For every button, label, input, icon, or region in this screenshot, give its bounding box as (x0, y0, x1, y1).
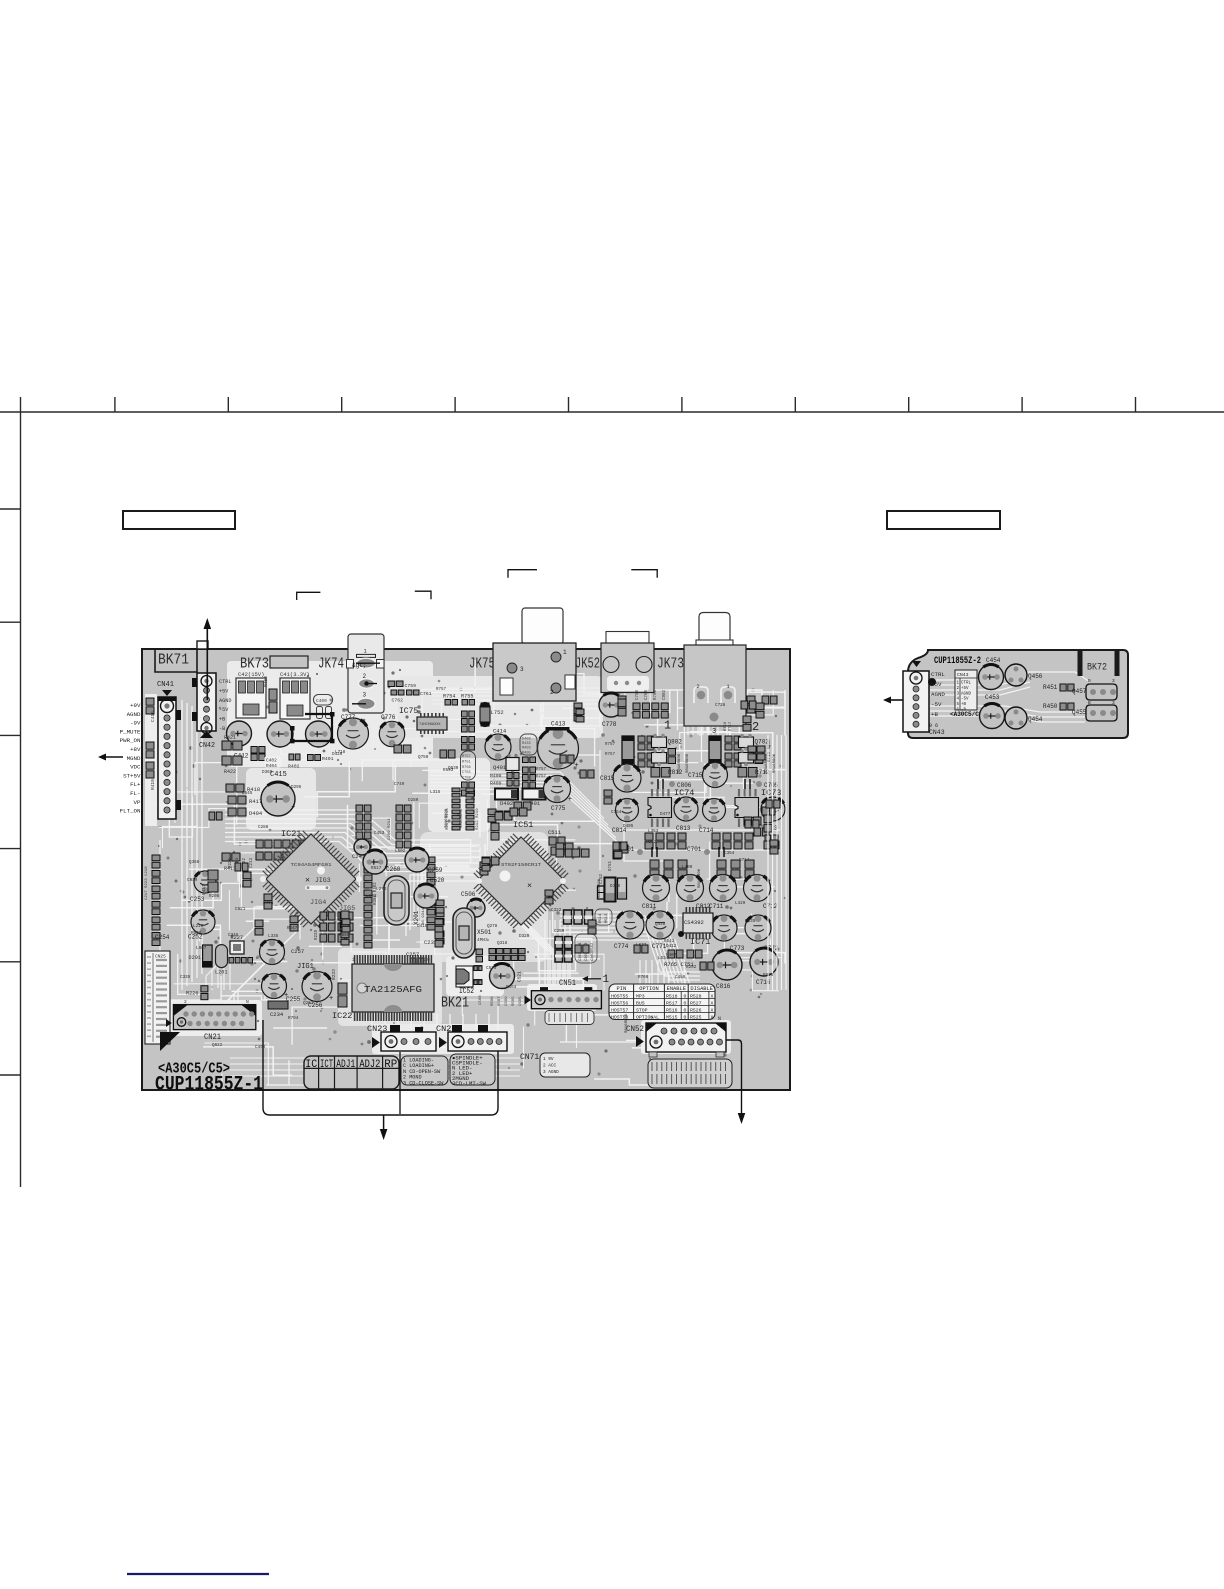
svg-text:R422: R422 (224, 769, 236, 775)
svg-text:O: O (684, 1007, 687, 1013)
capacitor C255 (262, 974, 301, 1004)
svg-text:L718: L718 (335, 750, 346, 755)
svg-text:R226: R226 (186, 991, 198, 997)
resistors C402 R404 R402 R401 row (251, 747, 334, 770)
svg-text:ST92F150CR1T: ST92F150CR1T (501, 862, 541, 868)
transistor IC52 (456, 963, 523, 996)
svg-text:Q318: Q318 (497, 941, 508, 946)
white routing region CN51 (527, 984, 597, 1011)
svg-text:D535: D535 (745, 919, 756, 924)
svg-text:C213: C213 (250, 857, 254, 868)
resistor cluster R220 R224 R222 (229, 840, 308, 868)
svg-text:D306: D306 (610, 884, 621, 889)
svg-text:C322: C322 (551, 908, 562, 913)
resistor R226 (186, 986, 208, 1000)
svg-text:ADJ2: ADJ2 (359, 1059, 380, 1071)
resistors R413 R411 (201, 853, 240, 895)
svg-text:D201: D201 (189, 955, 201, 961)
white routing region CN21 (170, 1000, 262, 1036)
capacitor C414 (485, 728, 511, 761)
svg-text:MGND: MGND (127, 755, 141, 762)
amplifier channel 2 block IC73 (687, 734, 785, 910)
transistor Q455 (1072, 700, 1117, 721)
resistor grid R217 R213 rows (446, 788, 480, 830)
svg-text:O: O (684, 1014, 687, 1020)
capacitors C816 C716 (712, 948, 778, 990)
svg-text:C701: C701 (687, 846, 702, 853)
callout bracket above JK73 (631, 570, 657, 578)
svg-text:ICT: ICT (320, 1059, 333, 1071)
connector JK74 (347, 634, 385, 713)
svg-text:VDC: VDC (130, 764, 141, 771)
svg-text:CN43: CN43 (957, 672, 969, 678)
svg-text:R816R806: R816R806 (678, 753, 682, 773)
svg-text:R526: R526 (690, 1007, 702, 1013)
svg-text:FL-: FL- (130, 790, 140, 797)
svg-text:M515: M515 (666, 1014, 678, 1020)
resistor grid right of IC51 lower (555, 934, 597, 963)
capacitor C775 (544, 776, 573, 813)
svg-text:R247: R247 (287, 926, 298, 931)
capacitor C400 label pill (314, 695, 333, 719)
svg-text:2 ACC: 2 ACC (543, 1064, 557, 1069)
svg-text:C354: C354 (724, 851, 735, 856)
svg-text:DISABLE: DISABLE (690, 986, 713, 992)
svg-text:D369: D369 (262, 770, 273, 775)
svg-text:D412: D412 (666, 944, 677, 949)
svg-text:C288: C288 (258, 825, 269, 830)
svg-text:L502: L502 (395, 849, 406, 854)
svg-text:3CD-LMT-SW: 3CD-LMT-SW (452, 1081, 486, 1087)
svg-text:HOST56: HOST56 (611, 1000, 628, 1006)
svg-text:2: 2 (696, 683, 699, 690)
svg-text:C508: C508 (479, 995, 483, 1005)
option table PIN OPTION ENABLE DISABLE (609, 984, 715, 1020)
svg-text:R717: R717 (729, 722, 733, 731)
svg-text:C759: C759 (405, 683, 417, 689)
capacitor C260 (363, 850, 401, 874)
svg-text:R527: R527 (690, 1000, 702, 1006)
transistor Q454 (1005, 707, 1043, 729)
svg-text:CN71: CN71 (520, 1053, 539, 1062)
white routing region CN52 (641, 1020, 731, 1054)
svg-text:R513: R513 (605, 913, 609, 923)
small board traces (930, 672, 1090, 722)
svg-text:R507: R507 (498, 996, 502, 1006)
svg-text:BK21: BK21 (441, 996, 469, 1012)
white routing region IC52 (446, 956, 504, 996)
svg-text:C42(15V): C42(15V) (238, 671, 264, 678)
svg-text:L752: L752 (491, 709, 504, 716)
svg-text:R212: R212 (646, 840, 657, 845)
svg-text:R816R806: R816R806 (686, 753, 690, 773)
svg-text:4MHz: 4MHz (477, 937, 488, 943)
svg-text:+5V: +5V (931, 681, 942, 688)
svg-text:CN43: CN43 (929, 729, 945, 736)
svg-text:R761: R761 (654, 689, 658, 700)
svg-text:3: 3 (712, 728, 716, 736)
svg-text:R408: R408 (490, 773, 502, 779)
capacitor C454 (979, 657, 1004, 690)
svg-text:R405: R405 (522, 751, 531, 755)
connector JK52 (601, 632, 654, 693)
resistor R403 (263, 676, 277, 713)
svg-text:R766: R766 (638, 975, 649, 980)
svg-text:C486: C486 (675, 975, 686, 980)
svg-text:3 AGND: 3 AGND (543, 1070, 559, 1075)
svg-text:3: 3 (1112, 700, 1115, 706)
svg-text:MP3: MP3 (636, 993, 645, 999)
resistor R451 (1043, 684, 1074, 691)
power amp IC22 TA2125AFG (332, 955, 434, 1021)
capacitor C415 (261, 771, 295, 816)
svg-text:Q750: Q750 (418, 755, 429, 760)
adjustment table IC ICT ADJ1 ADJ2 RP (304, 1056, 399, 1089)
label JIG1 (297, 963, 314, 971)
svg-text:R757: R757 (605, 753, 616, 757)
filler chip components texture (209, 696, 779, 947)
capacitors C759 C761 C762 (388, 681, 432, 704)
svg-text:C760: C760 (645, 689, 649, 700)
net labels left of board (120, 702, 141, 815)
svg-text:R816R806: R816R806 (445, 808, 449, 828)
label BK73 and box (240, 656, 308, 673)
labels JIG4 JIG5 (310, 899, 355, 913)
arrow pointing left from CN43 (883, 697, 903, 704)
svg-text:1 9V: 1 9V (543, 1057, 554, 1062)
svg-text:C639: C639 (187, 878, 198, 883)
svg-text:N: N (246, 999, 249, 1005)
svg-text:X: X (711, 1007, 714, 1013)
svg-text:C416: C416 (150, 711, 156, 722)
svg-text:B: B (1088, 678, 1091, 684)
svg-text:L667: L667 (196, 946, 207, 951)
svg-text:D403: D403 (522, 738, 531, 742)
svg-text:C511: C511 (548, 829, 562, 836)
resistors R421 R422 (222, 735, 242, 775)
capacitor C453 (980, 694, 1005, 729)
svg-text:Q401: Q401 (493, 764, 507, 771)
svg-text:R757: R757 (536, 768, 547, 772)
svg-text:L274: L274 (376, 887, 387, 892)
vertical connector strip CN25 (145, 951, 170, 1044)
svg-text:C728: C728 (715, 703, 726, 708)
svg-text:BUS: BUS (636, 1000, 645, 1006)
left edge parts C416 R419 (145, 694, 157, 826)
svg-text:16: 16 (424, 957, 430, 963)
svg-text:C254: C254 (155, 934, 170, 941)
svg-text:C576: C576 (486, 966, 497, 971)
svg-text:R516: R516 (666, 1007, 678, 1013)
svg-text:Q263: Q263 (303, 1001, 314, 1006)
svg-text:CTRL: CTRL (931, 671, 945, 678)
svg-text:CTRL: CTRL (219, 679, 231, 685)
label JK52 (575, 657, 600, 673)
arrow pointing left at MGND (98, 754, 123, 761)
crystal X201 (384, 876, 426, 925)
resistor column R302 (364, 860, 378, 948)
svg-text:L633: L633 (366, 894, 377, 899)
svg-text:JIG4: JIG4 (310, 899, 326, 907)
svg-text:X: X (711, 1000, 714, 1006)
svg-text:C505: C505 (519, 996, 523, 1006)
svg-text:C778: C778 (602, 721, 617, 728)
svg-text:D320: D320 (519, 934, 530, 939)
svg-text:-B: -B (219, 726, 225, 732)
board name text A30C5/C5 (158, 1061, 230, 1078)
connector CN41 (157, 681, 181, 819)
capacitor C815 (600, 764, 641, 792)
svg-text:1: 1 (563, 649, 567, 656)
white routing region center (420, 832, 548, 962)
empty label box right (887, 511, 1000, 529)
svg-text:Q454: Q454 (1028, 716, 1043, 723)
svg-text:L201: L201 (215, 970, 227, 976)
svg-text:C712: C712 (763, 903, 778, 910)
board name text CUP11855Z-1 (155, 1074, 263, 1097)
connector CN43 (903, 661, 945, 736)
label JK75 (469, 657, 495, 673)
top ruler line with tick marks (0, 397, 1224, 412)
connector CN71 legend (520, 1053, 590, 1077)
svg-text:R676: R676 (763, 973, 774, 978)
crystal X501 (453, 908, 492, 958)
svg-text:CN25: CN25 (155, 954, 166, 960)
svg-text:R664: R664 (506, 985, 517, 990)
capacitor C778 (599, 693, 625, 728)
svg-text:R433: R433 (522, 742, 531, 746)
capacitor C413 (538, 721, 579, 771)
svg-text:C209 R211: C209 R211 (388, 818, 392, 840)
svg-text:R403: R403 (522, 747, 531, 751)
svg-text:CTRL: CTRL (961, 682, 972, 686)
svg-text:R417: R417 (249, 798, 262, 805)
svg-text:×: × (305, 876, 310, 886)
svg-text:O: O (684, 993, 687, 999)
connector CN52 (626, 1016, 726, 1057)
svg-text:R451: R451 (1043, 684, 1058, 691)
svg-text:HOST55: HOST55 (611, 993, 628, 999)
white routing region R217 column (428, 758, 490, 832)
svg-text:3: 3 (363, 692, 367, 699)
svg-text:C621: C621 (235, 907, 246, 912)
svg-text:R816R806: R816R806 (698, 868, 702, 888)
svg-text:C257: C257 (291, 948, 304, 955)
amplifier channel 1 block IC74 (612, 734, 711, 910)
svg-text:D751: D751 (609, 860, 613, 871)
svg-text:+8V: +8V (130, 746, 141, 753)
svg-text:R233: R233 (331, 969, 337, 980)
small board CUP11855Z-2 outline (908, 650, 1128, 738)
svg-text:C902: C902 (663, 689, 667, 700)
inductor L201 (215, 945, 228, 976)
svg-text:CN21: CN21 (204, 1032, 221, 1042)
svg-text:R757: R757 (536, 775, 547, 779)
svg-text:JK52: JK52 (575, 657, 600, 673)
svg-text:R816R806: R816R806 (773, 753, 777, 773)
svg-text:R505: R505 (512, 996, 516, 1006)
right column extra parts (545, 746, 780, 970)
svg-text:1: 1 (603, 974, 610, 986)
svg-text:C415: C415 (270, 771, 287, 779)
svg-text:ST+5V: ST+5V (123, 772, 141, 779)
random routing traces (152, 660, 785, 1085)
svg-text:X201: X201 (413, 910, 420, 925)
svg-text:+5V: +5V (961, 687, 969, 691)
connector CN23 (367, 1024, 436, 1051)
svg-text:AGND: AGND (931, 691, 945, 698)
svg-text:R754: R754 (443, 694, 455, 700)
white routing region power area (227, 661, 433, 767)
white routing region top center (398, 676, 603, 738)
svg-text:-5V: -5V (931, 701, 942, 708)
svg-text:AGND: AGND (961, 692, 972, 696)
svg-text:Q456: Q456 (1028, 673, 1043, 680)
svg-text:Q802: Q802 (668, 739, 683, 746)
legend block loading (401, 1056, 448, 1086)
label BK21 (441, 996, 469, 1012)
svg-text:ADJ1: ADJ1 (336, 1059, 355, 1071)
label CUP11855Z-2 (934, 655, 981, 667)
svg-text:C715: C715 (688, 772, 703, 779)
label JK73 (657, 657, 684, 673)
svg-text:C762: C762 (392, 698, 404, 704)
svg-text:C253: C253 (190, 896, 205, 903)
svg-text:CUP11855Z-1: CUP11855Z-1 (155, 1074, 263, 1097)
svg-text:R292: R292 (686, 965, 697, 970)
svg-text:R816R806: R816R806 (765, 753, 769, 773)
black triangle marker bottom left (160, 1032, 180, 1051)
svg-text:C402: C402 (266, 758, 277, 764)
pin number 3 of JK73 (712, 728, 716, 736)
diode D751 inductor L751 (598, 860, 627, 901)
resistor row R506 R507 C509 R505 C505 (474, 949, 525, 1007)
svg-text:R528: R528 (690, 993, 702, 999)
svg-text:L400: L400 (682, 865, 693, 870)
svg-text:CN51: CN51 (559, 979, 576, 988)
svg-text:C217 R223 C218: C217 R223 C218 (145, 866, 149, 900)
transistor R227 block (229, 935, 253, 963)
svg-text:C754: C754 (611, 810, 622, 815)
svg-text:C259: C259 (428, 867, 443, 874)
svg-text:IC71: IC71 (690, 937, 710, 947)
svg-text:3 CD-CLOSE-SW: 3 CD-CLOSE-SW (403, 1080, 444, 1086)
svg-text:C758: C758 (462, 777, 471, 781)
svg-text:JIG3: JIG3 (315, 877, 331, 884)
svg-text:R718: R718 (724, 721, 728, 731)
inductor L752 (480, 703, 504, 727)
svg-text:D280: D280 (408, 798, 419, 803)
svg-text:3: 3 (1112, 678, 1115, 684)
bracket BK72 (1080, 650, 1117, 676)
svg-text:R228: R228 (315, 929, 319, 940)
svg-text:OPTION: OPTION (639, 986, 658, 992)
svg-text:TC94A54MFG01: TC94A54MFG01 (291, 862, 332, 868)
svg-text:&gt;: &gt; (352, 662, 366, 669)
svg-text:C498: C498 (255, 1045, 266, 1050)
svg-text:Q622: Q622 (212, 1043, 223, 1048)
table CN43 (955, 670, 977, 713)
diode D403 label pill (520, 734, 537, 763)
svg-text:D545: D545 (242, 791, 253, 796)
svg-text:C41(3.3V): C41(3.3V) (280, 671, 310, 678)
svg-text:VP: VP (134, 799, 141, 806)
regulator block C41(3.3V) (280, 671, 310, 719)
svg-text:AGND: AGND (219, 698, 231, 704)
svg-text:+B: +B (961, 703, 967, 707)
svg-text:JK74: JK74 (318, 657, 344, 673)
resistor R233 column (331, 969, 347, 1007)
svg-text:1: 1 (664, 719, 671, 733)
scattered tiny reference labels (180, 703, 774, 1050)
resistor grid R304 C201 block (356, 805, 411, 848)
capacitor C511 (548, 829, 565, 845)
svg-text:C413: C413 (551, 721, 566, 728)
svg-text:R208: R208 (209, 894, 220, 899)
svg-text:BK72: BK72 (1087, 662, 1107, 674)
svg-text:R757: R757 (462, 755, 471, 759)
svg-text:C234: C234 (270, 1011, 284, 1018)
svg-text:C346: C346 (228, 933, 239, 938)
svg-text:B: B (1088, 700, 1091, 706)
svg-text:R757: R757 (436, 688, 447, 692)
svg-text:C815: C815 (600, 775, 615, 782)
resistor column R757 R756 R753 R751 (461, 711, 476, 796)
svg-text:R756: R756 (462, 766, 471, 770)
white routing region C415 (246, 768, 316, 830)
callout bracket above JK74 (297, 592, 321, 600)
svg-text:X: X (711, 993, 714, 999)
resistor cluster below JIG5 (315, 912, 353, 942)
svg-text:D295: D295 (291, 785, 302, 790)
resistors R754 R755 (443, 694, 475, 706)
svg-text:C335: C335 (180, 975, 191, 980)
svg-text:CUP11855Z-2: CUP11855Z-2 (934, 655, 981, 667)
svg-text:2: 2 (550, 689, 554, 696)
transistor Q457 (1072, 678, 1117, 700)
svg-text:R407: R407 (666, 953, 677, 958)
svg-text:C749: C749 (394, 782, 405, 787)
svg-text:C771: C771 (652, 943, 667, 950)
svg-text:R794: R794 (288, 1016, 299, 1021)
svg-text:C711: C711 (709, 903, 724, 910)
svg-text:R409: R409 (490, 781, 502, 787)
svg-text:OPTIONAL: OPTIONAL (636, 1014, 659, 1020)
capacitor C506 (461, 891, 485, 917)
svg-text:3: 3 (520, 666, 524, 673)
left ruler line with tick marks (0, 397, 21, 1187)
svg-text:+: + (291, 803, 295, 811)
capacitor C259 (405, 848, 443, 874)
connector JK75 (493, 608, 576, 701)
svg-text:R402: R402 (288, 764, 300, 770)
capacitor C715 (688, 763, 728, 788)
transistor Q401 parts (490, 754, 536, 788)
svg-text:R755: R755 (461, 694, 473, 700)
bracket BK71 (155, 641, 208, 672)
resistors R765 C751 (664, 950, 702, 968)
empty label box left (123, 511, 235, 529)
IC71 CS4392 DAC (678, 907, 713, 947)
label JK74 (318, 657, 344, 673)
white routing region CN22-CN23 (372, 1024, 514, 1054)
svg-text:+: + (574, 762, 578, 770)
svg-text:R421: R421 (224, 735, 236, 741)
svg-text:R212 R210: R212 R210 (476, 808, 480, 830)
main board CUP11855Z-1 outline (142, 649, 790, 1090)
svg-text:+: + (329, 995, 333, 1003)
capacitor C253 (190, 871, 216, 903)
